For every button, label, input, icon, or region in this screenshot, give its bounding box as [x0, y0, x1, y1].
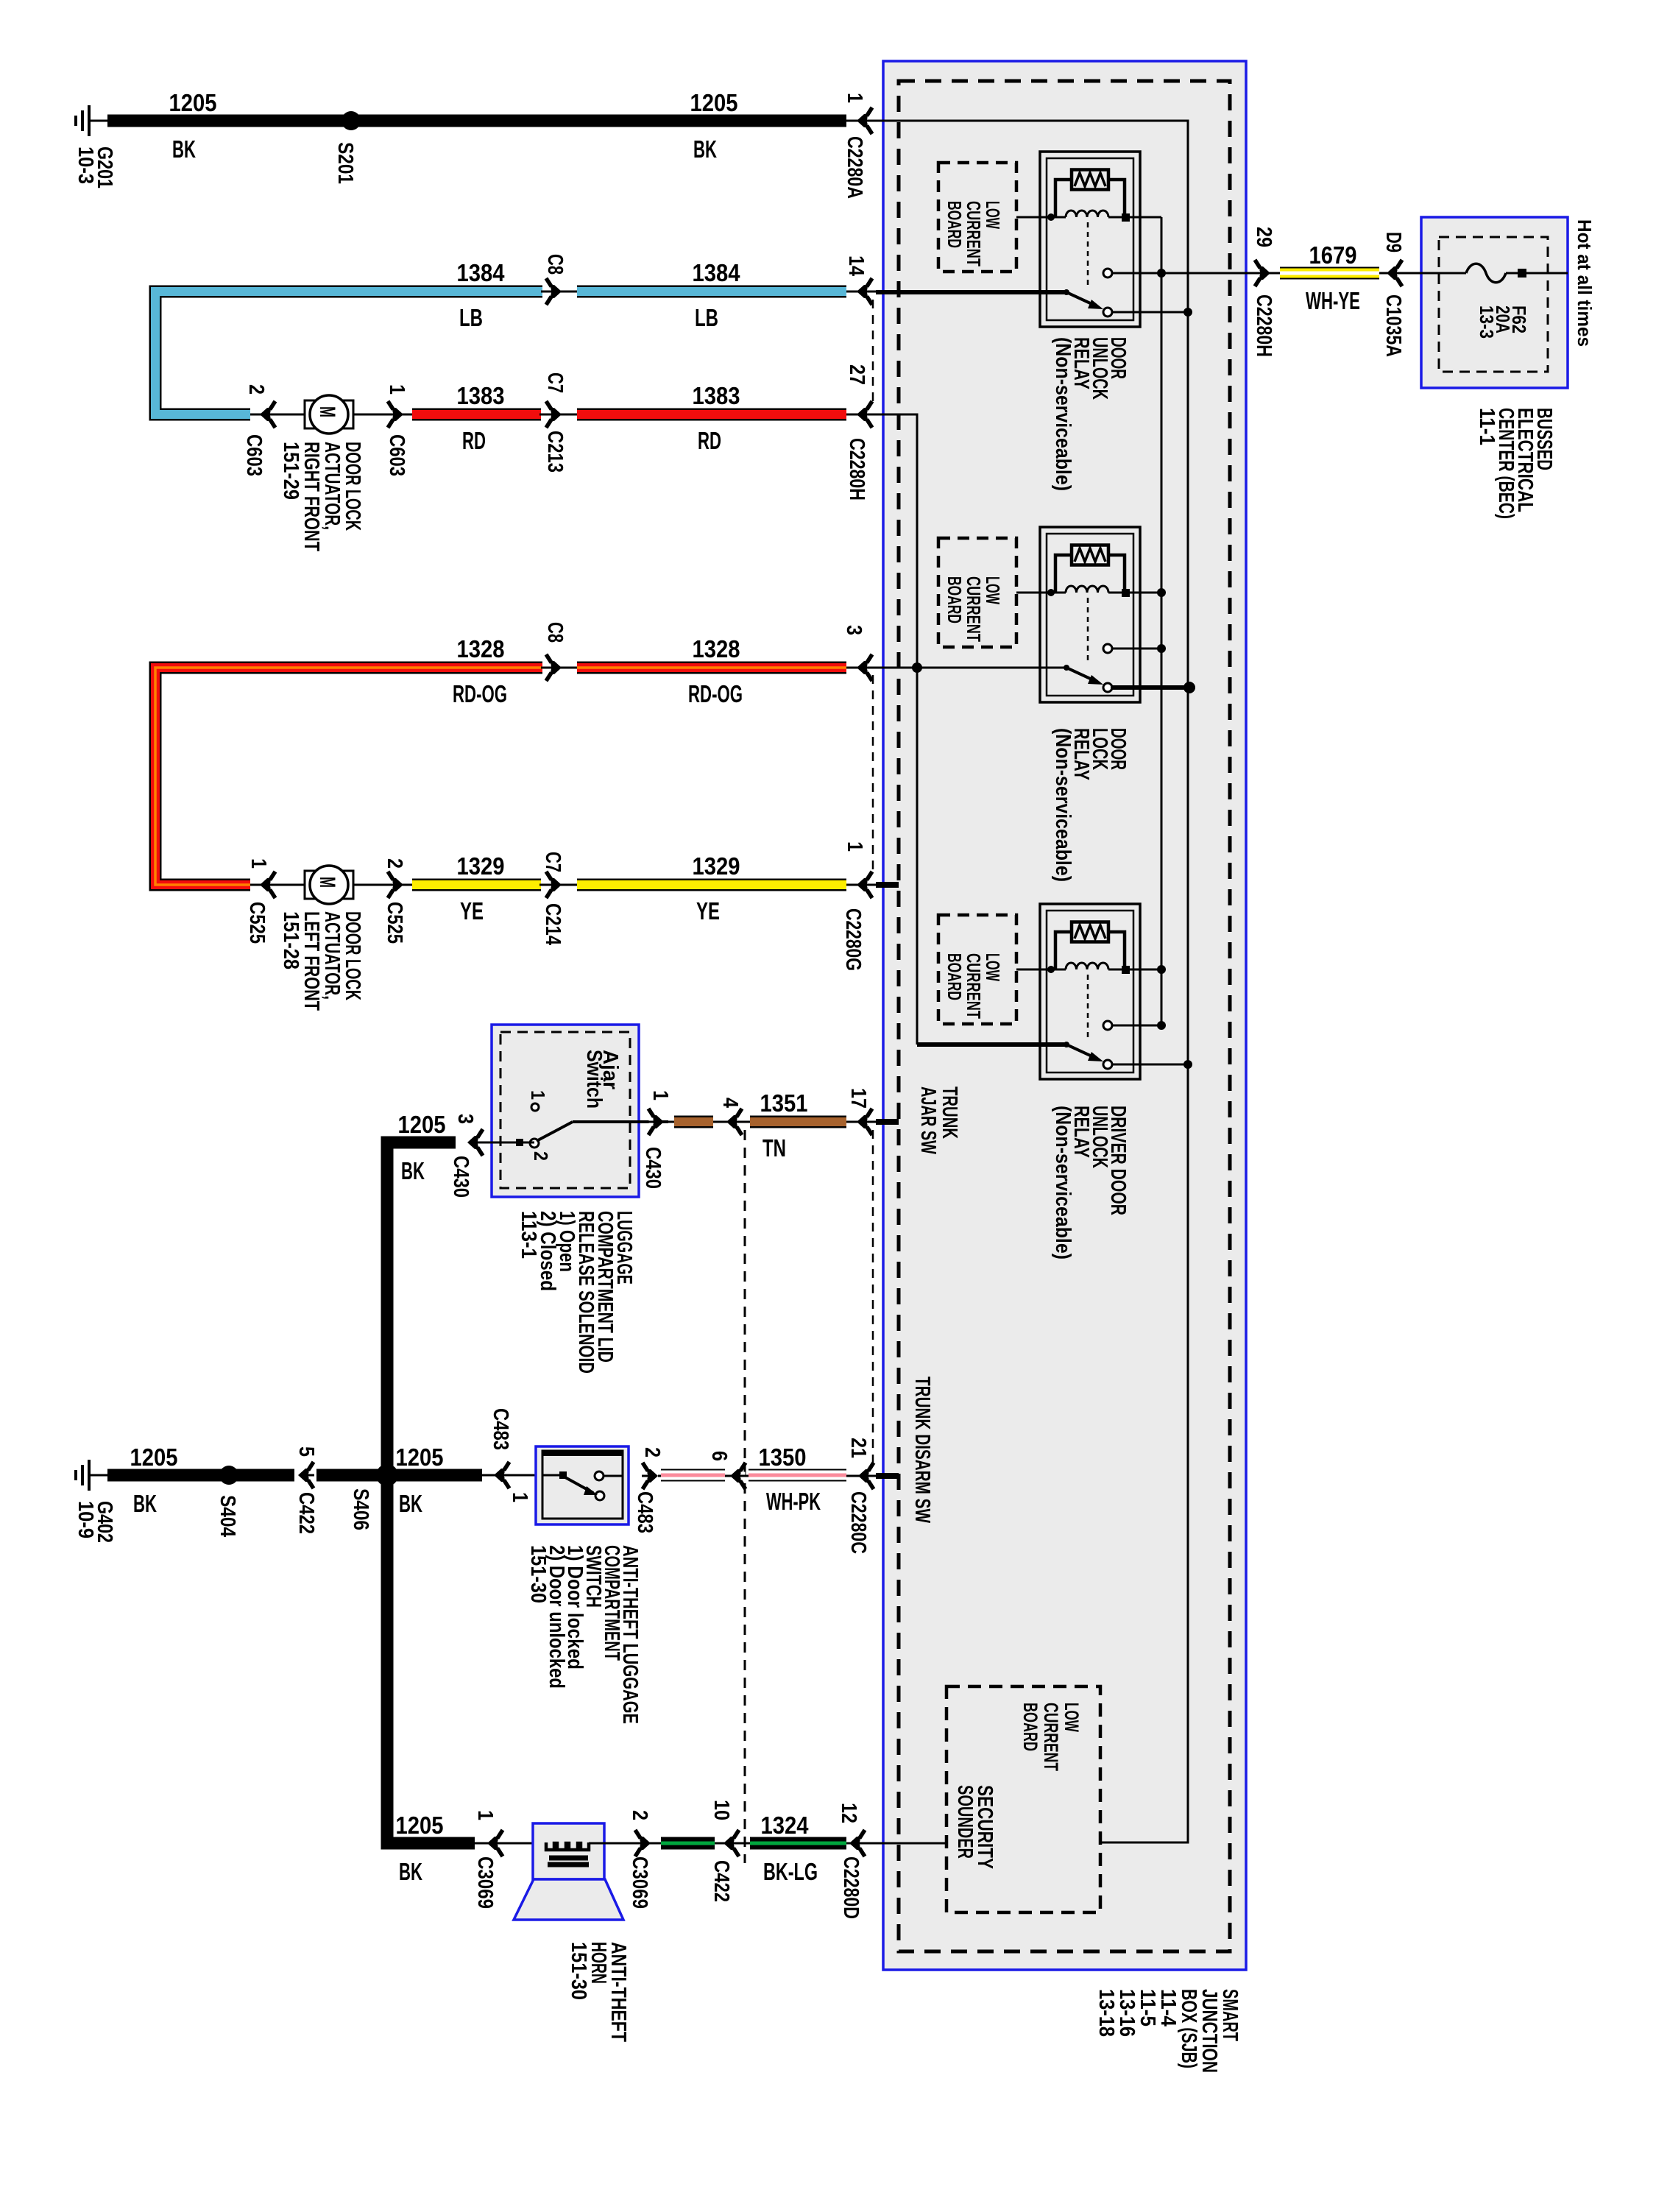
svg-text:M: M	[315, 406, 339, 417]
svg-text:1383: 1383	[693, 382, 740, 409]
connector pin 12 arrow	[849, 1830, 866, 1856]
svg-text:14: 14	[844, 255, 868, 276]
svg-text:BOARD: BOARD	[944, 576, 966, 623]
svg-text:S406: S406	[349, 1488, 372, 1530]
label pin 2 C525	[383, 858, 406, 869]
wire 1351 TN segment 1	[668, 1121, 750, 1123]
label pin 2 C483	[640, 1447, 664, 1457]
label pin 17	[846, 1088, 870, 1109]
wire motor leads row2b	[250, 414, 305, 416]
label S201	[333, 142, 357, 184]
ground G402	[89, 1474, 107, 1477]
splice S404	[219, 1466, 238, 1485]
ajar switch contacts	[531, 1103, 539, 1111]
label C3069 left	[473, 1856, 497, 1909]
connector C430 pin 3 arrow	[467, 1129, 484, 1156]
wire 1351 TN segment 2	[750, 1116, 846, 1128]
low current board box relay3	[938, 915, 1016, 1024]
relay1 ground contact wire	[1112, 311, 1188, 314]
low current board box relay1	[938, 163, 1016, 272]
svg-text:1205: 1205	[398, 1111, 446, 1138]
label C2280D	[839, 1856, 863, 1919]
svg-text:4: 4	[718, 1098, 742, 1108]
label pin 1 C3069	[473, 1810, 497, 1820]
inline connector C8 gap row3a	[541, 667, 578, 669]
relay2 coil feed junction	[1130, 592, 1161, 594]
svg-text:(Non-serviceable): (Non-serviceable)	[1051, 337, 1075, 491]
inline connector C7/C213 gap row2b	[539, 414, 578, 416]
label C430 left	[449, 1156, 473, 1198]
svg-text:113-1: 113-1	[517, 1211, 540, 1259]
svg-text:2: 2	[628, 1810, 651, 1820]
wire 1350 WH-PK segment 1	[658, 1475, 751, 1477]
label Ajar Switch	[582, 1050, 622, 1109]
svg-text:1: 1	[385, 384, 408, 395]
svg-text:1: 1	[473, 1810, 497, 1820]
svg-text:TN: TN	[762, 1134, 786, 1162]
label C422 pin5	[294, 1492, 318, 1534]
svg-text:1: 1	[508, 1492, 531, 1502]
connector pin 21 arrow	[858, 1463, 874, 1489]
svg-text:1350: 1350	[759, 1444, 807, 1471]
relay 1 door unlock relay	[1040, 152, 1140, 327]
label C8 row2	[543, 254, 567, 275]
label C430 right	[641, 1147, 665, 1189]
wire 1205 BK row1	[107, 115, 846, 127]
label Hot at all times	[1574, 219, 1596, 347]
label C422 pin10	[710, 1860, 733, 1902]
svg-text:BK: BK	[693, 135, 717, 163]
svg-text:(Non-serviceable): (Non-serviceable)	[1051, 1106, 1075, 1259]
label pin 1	[843, 93, 866, 103]
label C603 left	[242, 434, 266, 476]
connector pin 3 arrow	[857, 654, 873, 681]
label C2280G	[841, 908, 865, 971]
connector pin 1 C2280G arrow	[857, 872, 873, 898]
wire 1329 YE right	[577, 879, 846, 891]
label pin 14	[844, 255, 868, 276]
wire 1384 LB loop left	[155, 291, 542, 414]
svg-text:RD-OG: RD-OG	[453, 680, 507, 707]
label pin 3 C430	[453, 1114, 477, 1124]
wire pin1 C2280G stub	[846, 884, 877, 886]
svg-text:21: 21	[846, 1438, 870, 1458]
label C213	[543, 431, 567, 473]
splice S201	[342, 111, 361, 130]
svg-text:151-30: 151-30	[567, 1942, 590, 2000]
label C525 right	[383, 902, 406, 944]
label S406	[349, 1488, 372, 1530]
label DOOR LOCK ACTUATOR RIGHT FRONT 151-29	[279, 442, 364, 551]
label pin 6	[707, 1451, 731, 1461]
svg-text:2: 2	[383, 858, 406, 869]
label TRUNK DISARM SW	[910, 1377, 934, 1523]
connector C3069 pin 2 arrow	[589, 1842, 661, 1845]
wire 1383 RD right	[577, 409, 846, 421]
svg-text:BK: BK	[399, 1490, 422, 1517]
label C7 row2b	[543, 372, 567, 393]
label C8 row3a	[543, 622, 567, 643]
svg-text:LB: LB	[695, 304, 718, 331]
svg-text:1328: 1328	[693, 635, 740, 662]
svg-text:11-1: 11-1	[1475, 408, 1498, 445]
motor door lock actuator left front	[305, 871, 315, 899]
connector C422 dashed line	[744, 1130, 746, 1863]
svg-text:1205: 1205	[169, 89, 217, 116]
svg-text:C8: C8	[543, 254, 567, 275]
svg-text:(Non-serviceable): (Non-serviceable)	[1051, 728, 1075, 882]
relay2 NO contact wire	[1112, 648, 1161, 650]
bussed electrical center BEC outline	[1421, 217, 1568, 388]
relay3 coil feed junction	[1130, 969, 1161, 971]
svg-text:C2280C: C2280C	[846, 1491, 870, 1554]
label pin 1 C483	[508, 1492, 531, 1502]
svg-text:2: 2	[244, 384, 268, 395]
label SMART JUNCTION BOX (SJB)	[1094, 1989, 1242, 2073]
label C2280A	[843, 136, 866, 199]
wire 1350 WH-PK segment 2	[749, 1469, 846, 1482]
svg-text:C430: C430	[641, 1147, 665, 1189]
label pin 27	[845, 364, 868, 385]
connector C213 arrow	[545, 401, 562, 428]
svg-text:AJAR SW: AJAR SW	[916, 1086, 940, 1154]
svg-text:C8: C8	[543, 622, 567, 643]
wire pin27 into SJB to lock bus	[846, 414, 917, 668]
svg-text:C7: C7	[543, 372, 567, 393]
svg-text:151-29: 151-29	[279, 442, 302, 500]
wire pin14 to relay1 common	[846, 291, 880, 293]
ajar switch output wire	[573, 1120, 668, 1123]
svg-text:LOW: LOW	[1061, 1703, 1083, 1732]
relay3 common feed from lock bus	[916, 668, 919, 1045]
svg-text:WH-PK: WH-PK	[766, 1488, 821, 1515]
wire 1205 BK row5 left	[107, 1469, 294, 1482]
svg-text:BOARD: BOARD	[944, 201, 966, 248]
svg-text:29: 29	[1252, 227, 1275, 247]
label C525 left	[245, 902, 269, 944]
svg-text:12: 12	[837, 1803, 860, 1823]
svg-text:1: 1	[648, 1090, 672, 1100]
relay1 power wire to pin29	[1112, 272, 1256, 275]
label pin 4	[718, 1098, 742, 1108]
svg-text:YE: YE	[696, 897, 720, 925]
svg-text:C1035A: C1035A	[1381, 294, 1405, 357]
label LUGGAGE COMPARTMENT LID RELEASE SOLENOID	[517, 1211, 636, 1374]
svg-text:1324: 1324	[761, 1812, 810, 1839]
svg-text:3: 3	[842, 625, 866, 635]
connector pin 6 arrow	[730, 1463, 746, 1489]
junction lock bus	[912, 662, 922, 673]
label BUSSED ELECTRICAL CENTER (BEC) 11-1	[1475, 408, 1556, 519]
label C2280C	[846, 1491, 870, 1554]
connector C3069 pin 1 arrow	[475, 1842, 546, 1845]
svg-text:C603: C603	[242, 434, 266, 476]
svg-text:BK: BK	[401, 1157, 425, 1184]
motor door lock actuator right front	[305, 400, 315, 428]
low current board box relay2	[938, 538, 1016, 647]
svg-text:10: 10	[710, 1800, 733, 1820]
svg-text:RD: RD	[698, 427, 721, 454]
svg-text:BK-LG: BK-LG	[763, 1858, 818, 1885]
svg-text:C3069: C3069	[473, 1856, 497, 1909]
ground G201	[89, 120, 107, 122]
wire 1328 RD-OG right	[577, 662, 846, 674]
connector C422 pin 10 arrow	[715, 1842, 750, 1845]
wire 1324 BK-LG segment 2	[750, 1837, 846, 1850]
label pin 1 C430	[648, 1090, 672, 1100]
wire pin12 to security sounder	[846, 1842, 948, 1845]
svg-text:C603: C603	[385, 434, 408, 476]
svg-text:S404: S404	[216, 1495, 239, 1537]
wire 1205 BK row5 mid	[316, 1469, 482, 1482]
wire 1205 BK trunk ground branch	[387, 1142, 475, 1843]
svg-text:2: 2	[640, 1447, 664, 1457]
connector C8 arrow row3a	[545, 654, 562, 681]
svg-text:C7: C7	[541, 852, 565, 872]
svg-text:5: 5	[294, 1446, 318, 1457]
svg-text:BK: BK	[399, 1858, 422, 1885]
wire pin17 stub	[846, 1121, 877, 1123]
ajar switch arm	[537, 1122, 573, 1141]
wire 1329 YE left	[412, 879, 541, 891]
label F62 20A 13-3	[1476, 305, 1530, 339]
power bus	[1161, 217, 1163, 1025]
wire 1324 BK-LG segment 1	[661, 1837, 715, 1850]
label C214	[541, 903, 565, 945]
svg-text:1329: 1329	[693, 852, 740, 880]
svg-text:13-3: 13-3	[1476, 305, 1498, 339]
security sounder low current board box	[946, 1686, 1100, 1912]
label pin 2 C3069	[628, 1810, 651, 1820]
relay 3 driver door unlock relay	[1040, 904, 1140, 1079]
connector C2280C dashed link pins 17-21	[872, 1130, 874, 1468]
relay2 ground contact wire thick	[1111, 685, 1190, 690]
connector C603 pin 1 arrow	[387, 401, 403, 428]
wire to anti-theft switch	[482, 1474, 536, 1477]
svg-text:C483: C483	[633, 1491, 657, 1533]
wire 1384 LB right	[577, 286, 846, 298]
connector C525 pin 1 arrow	[260, 872, 276, 898]
relay3 ground contact wire	[1112, 1064, 1188, 1066]
label ANTI-THEFT HORN 151-30	[567, 1942, 630, 2042]
svg-text:151-28: 151-28	[279, 911, 302, 969]
label pin 12	[837, 1803, 860, 1823]
label C2280H at pin 29	[1252, 294, 1275, 357]
svg-text:13-18: 13-18	[1094, 1989, 1118, 2037]
connector pin D9 arrow	[1387, 260, 1403, 286]
svg-text:1205: 1205	[690, 89, 738, 116]
relay 2 door lock relay	[1040, 527, 1140, 702]
relay3 NO contact wire	[1112, 1025, 1161, 1027]
svg-text:C2280A: C2280A	[843, 136, 866, 199]
connector C603 pin 2 arrow	[260, 401, 276, 428]
svg-text:M: M	[315, 877, 339, 888]
label LOW CURRENT BOARD sounder	[1019, 1703, 1083, 1771]
svg-text:1384: 1384	[457, 259, 506, 286]
svg-text:10-3: 10-3	[74, 146, 97, 184]
svg-text:1383: 1383	[457, 382, 505, 409]
smart junction box SJB outline	[883, 61, 1246, 1970]
connector C525 pin 2 arrow	[387, 872, 403, 898]
svg-text:6: 6	[707, 1451, 731, 1461]
label TRUNK AJAR SW	[916, 1086, 961, 1154]
wire pin3 to relay2 common	[846, 667, 1069, 669]
svg-text:C2280H: C2280H	[1252, 294, 1275, 357]
label C2280H row2b	[845, 438, 868, 501]
label C7 row3b	[541, 852, 565, 872]
svg-text:10-9: 10-9	[74, 1501, 97, 1538]
connector C430 pin 1 arrow	[648, 1109, 664, 1135]
splice S406	[376, 1464, 398, 1486]
svg-text:C525: C525	[383, 902, 406, 944]
svg-text:1384: 1384	[693, 259, 741, 286]
svg-text:YE: YE	[460, 897, 484, 925]
wire pin21 stub	[846, 1475, 877, 1477]
label C3069 right	[628, 1856, 651, 1909]
inline connector C8 row2 wire gap	[541, 291, 578, 293]
label pin 21	[846, 1438, 870, 1458]
svg-text:BOARD: BOARD	[1019, 1703, 1041, 1751]
label pin 1 C525	[247, 858, 270, 869]
svg-text:1679: 1679	[1309, 241, 1357, 269]
wire into SJB pin1 to ground bus	[846, 121, 1188, 1842]
connector C483 pin 2 arrow	[642, 1463, 658, 1489]
svg-text:BOARD: BOARD	[944, 953, 966, 1000]
svg-text:27: 27	[845, 364, 868, 385]
label G402 10-9	[74, 1501, 116, 1543]
svg-text:1: 1	[843, 841, 866, 852]
wire 1328 RD-OG loop left	[155, 668, 542, 885]
svg-text:Hot at all times: Hot at all times	[1574, 219, 1596, 347]
BEC inner dashed border	[1439, 237, 1548, 372]
inline connector C7/C214 gap row3b	[539, 884, 578, 886]
svg-text:1205: 1205	[396, 1812, 444, 1839]
connector pin 27 arrow	[857, 401, 873, 428]
connector C2280H dashed link pins 14-27	[872, 300, 874, 407]
connector pin 1 C2280A arrow	[857, 107, 873, 134]
label DRIVER DOOR UNLOCK RELAY	[1051, 1106, 1130, 1259]
svg-text:S201: S201	[333, 142, 357, 184]
label pin 2 C603	[244, 384, 268, 395]
svg-text:D9: D9	[1381, 232, 1405, 252]
svg-text:RD: RD	[462, 427, 486, 454]
svg-text:C422: C422	[294, 1492, 318, 1534]
connector pin 29 arrow	[1254, 260, 1270, 286]
label pin 3	[842, 625, 866, 635]
anti-theft horn symbol	[533, 1823, 604, 1879]
label pin 5	[294, 1446, 318, 1457]
wire motor leads row3b	[250, 884, 305, 886]
svg-text:C2280G: C2280G	[841, 908, 865, 971]
label S404	[216, 1495, 239, 1537]
svg-text:3: 3	[453, 1114, 477, 1124]
label C1035A	[1381, 294, 1405, 357]
label pin 1 row3b	[843, 841, 866, 852]
svg-text:C3069: C3069	[628, 1856, 651, 1909]
label pin 10	[710, 1800, 733, 1820]
svg-text:C430: C430	[449, 1156, 473, 1198]
connector pin 4 arrow	[726, 1109, 743, 1135]
label DOOR LOCK RELAY	[1051, 728, 1130, 882]
svg-text:WH-YE: WH-YE	[1306, 287, 1360, 314]
svg-text:Switch: Switch	[582, 1050, 606, 1109]
connector C483 pin 1 arrow	[494, 1462, 510, 1488]
svg-text:1: 1	[527, 1090, 549, 1100]
svg-text:TRUNK: TRUNK	[938, 1086, 961, 1139]
svg-text:TRUNK DISARM SW: TRUNK DISARM SW	[910, 1377, 934, 1523]
svg-text:C422: C422	[710, 1860, 733, 1902]
SJB inner dashed border	[899, 81, 1230, 1951]
connector C2280G dashed link pins 3-1	[872, 675, 874, 876]
label C603 right	[385, 434, 408, 476]
connector C422 pin 5 arrow	[298, 1462, 314, 1488]
svg-text:C214: C214	[541, 903, 565, 945]
svg-text:17: 17	[846, 1088, 870, 1109]
connector pin 14 arrow	[857, 278, 873, 305]
svg-text:2: 2	[530, 1151, 552, 1161]
svg-text:1351: 1351	[760, 1089, 808, 1117]
label C483 pin1	[489, 1408, 512, 1450]
label pin 1 C603	[385, 384, 408, 395]
svg-text:151-30: 151-30	[526, 1545, 550, 1603]
ajar switch common wire	[481, 1142, 534, 1144]
luggage compartment ajar switch box	[492, 1025, 639, 1197]
label D9	[1381, 232, 1405, 252]
svg-text:LB: LB	[459, 304, 483, 331]
label G201 10-3	[74, 146, 116, 188]
svg-text:C525: C525	[245, 902, 269, 944]
svg-text:C2280H: C2280H	[845, 438, 868, 501]
label C483 pin2	[633, 1491, 657, 1533]
connector C214 arrow	[545, 872, 562, 898]
svg-text:1: 1	[247, 858, 270, 869]
svg-text:CURRENT: CURRENT	[1040, 1703, 1062, 1771]
svg-text:1328: 1328	[457, 635, 505, 662]
svg-text:1205: 1205	[130, 1444, 178, 1471]
svg-text:C483: C483	[489, 1408, 512, 1450]
label 29	[1252, 227, 1275, 247]
svg-text:1: 1	[843, 93, 866, 103]
svg-text:C2280D: C2280D	[839, 1856, 863, 1919]
label SECURITY SOUNDER	[953, 1785, 997, 1869]
svg-text:SOUNDER: SOUNDER	[953, 1785, 977, 1859]
anti-theft switch symbol	[542, 1474, 562, 1477]
fuse F62 20A	[1421, 272, 1466, 275]
svg-text:1205: 1205	[396, 1444, 444, 1471]
wire 1383 RD left	[412, 409, 541, 421]
svg-text:BK: BK	[172, 135, 196, 163]
label ANTI-THEFT LUGGAGE COMPARTMENT SWITCH	[526, 1545, 642, 1724]
label DOOR UNLOCK RELAY	[1051, 337, 1130, 491]
connector pin 17 arrow	[857, 1109, 873, 1135]
label DOOR LOCK ACTUATOR LEFT FRONT 151-28	[279, 911, 364, 1011]
wire 1679 WH-YE from SJB pin 29 to BEC D9	[1246, 272, 1284, 275]
svg-text:BK: BK	[133, 1490, 157, 1517]
svg-text:RD-OG: RD-OG	[688, 680, 743, 707]
anti-theft luggage compartment switch box	[536, 1446, 629, 1524]
svg-text:C213: C213	[543, 431, 567, 473]
connector C8 arrow row2	[545, 278, 562, 305]
svg-text:1329: 1329	[457, 852, 505, 880]
